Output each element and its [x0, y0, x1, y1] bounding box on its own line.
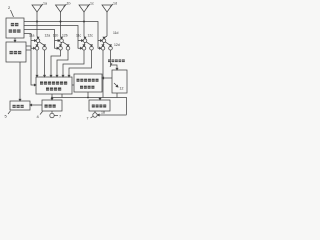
label 1c (antenna 3): [90, 2, 94, 6]
label 12d: [114, 43, 120, 47]
wire output line right: [97, 114, 126, 116]
terminal T6 below box6: [51, 111, 53, 113]
wire upper to lower-left ch3: [84, 42, 85, 45]
label 7 for terminal: [55, 115, 59, 117]
mixer I2 lower-left ring channel2: [59, 46, 63, 50]
wire box3 down to box5: [19, 62, 21, 100]
arrowhead into box5 right: [30, 104, 32, 106]
leader antenna2: [64, 4, 67, 7]
wire upper to lower-left ch2: [61, 42, 62, 45]
wire LO stubs channel4: [98, 41, 101, 49]
arrowheads ch1 into boxA: [36, 75, 45, 77]
arrowheads ch2 into boxA: [50, 75, 58, 77]
wire box6 to box5: [31, 104, 42, 106]
wire box2 to box3: [14, 38, 16, 41]
leader antenna3: [87, 4, 90, 7]
wire stem into upper ring ch4: [104, 36, 107, 38]
antenna 1b (channel 2): [56, 5, 66, 36]
svg-text:12b: 12b: [62, 34, 68, 38]
mixer U4 upper ring channel4: [102, 39, 106, 43]
box U3 control: [6, 42, 26, 62]
svg-text:12d: 12d: [114, 43, 120, 47]
mixer I4 lower-left ring channel4: [101, 46, 105, 50]
wire LO line to channel 3: [24, 26, 78, 49]
wire LO stubs channel3: [78, 41, 82, 49]
junction crossing dots on top LO line: [36, 21, 85, 23]
arrowhead into box6 top: [51, 98, 53, 100]
antenna 1c (channel 3): [79, 5, 89, 36]
wire boxA to boxB: [72, 84, 74, 86]
wire upper to lower-left ch1: [37, 42, 38, 45]
wire box3 to boxA left: [26, 46, 35, 85]
terminal TD below boxD: [94, 111, 96, 113]
wire LO stubs channel2: [55, 41, 59, 49]
mixer Q2 lower-right ring channel2: [66, 46, 70, 50]
box U2 local oscillator: [6, 18, 24, 38]
mixer Q3 lower-right ring channel3: [90, 46, 94, 50]
leader boxC label: [110, 63, 112, 67]
wire boxC feeds boxB: [103, 77, 112, 79]
label 11c: [76, 34, 82, 38]
wire LO line to channel 1: [24, 34, 31, 49]
svg-text:12a: 12a: [45, 34, 51, 38]
wire upper to lower-right ch2: [63, 42, 68, 46]
label 17 tick: [91, 116, 93, 118]
svg-text:1d: 1d: [113, 2, 117, 6]
label 4: [40, 112, 43, 115]
arrowhead box2-box3: [14, 40, 16, 42]
mixer Q1 lower-right ring channel1: [43, 46, 47, 50]
wire upper to lower-right ch3: [86, 42, 91, 46]
wire LO line to channel 4: [24, 22, 98, 49]
label 11a: [29, 34, 35, 38]
label 1d (antenna 4): [113, 2, 117, 6]
wire LO line to channel 2: [24, 30, 55, 49]
label 18: [101, 111, 105, 115]
arrowhead into boxD top: [99, 98, 101, 100]
label 11d: [113, 31, 119, 35]
box UB compensation: [74, 74, 102, 92]
svg-text:11a: 11a: [29, 34, 35, 38]
label 1a (antenna 1): [43, 2, 47, 6]
label 12c: [88, 34, 94, 38]
leader label2: [11, 10, 14, 17]
svg-text:12c: 12c: [88, 34, 94, 38]
wire stem into upper ring ch3: [84, 36, 85, 38]
leader antenna1: [40, 4, 43, 7]
wire upper to lower-right ch1: [39, 42, 44, 46]
svg-text:1b: 1b: [67, 2, 71, 6]
label 12b: [62, 34, 68, 38]
box UC calibration: [112, 70, 127, 93]
mixer U3 upper ring channel3: [83, 39, 87, 43]
wire ch2 outputs routed to boxA: [51, 50, 68, 76]
arrowhead ch4 into boxC: [116, 68, 118, 70]
svg-text:11c: 11c: [76, 34, 82, 38]
box UA amplitude/phase detector: [36, 77, 72, 94]
wire LO stubs channel1: [31, 41, 35, 49]
mixer I1 lower-left ring channel1: [35, 46, 39, 50]
label 2: [8, 5, 11, 10]
leader antenna4: [110, 4, 113, 7]
label 11b: [53, 34, 59, 38]
label calibration text above boxC: [108, 59, 125, 62]
svg-text:11b: 11b: [53, 34, 59, 38]
arrowhead into terminal TD: [97, 114, 99, 116]
wire upper to lower-right ch4: [105, 42, 110, 46]
wire box3 second stub: [26, 49, 31, 51]
box UD output processor: [89, 100, 110, 111]
wire ch3 outputs routed to boxA: [63, 50, 92, 76]
svg-text:1c: 1c: [90, 2, 94, 6]
svg-text:11d: 11d: [113, 31, 119, 35]
svg-text:18: 18: [101, 111, 105, 115]
wire ch1 outputs to boxA: [37, 50, 45, 76]
mixer U1 upper ring channel1: [36, 39, 40, 43]
mixer I3 lower-left ring channel3: [82, 46, 86, 50]
wire ch4 output Q to boxC top: [111, 50, 118, 69]
wire ch4 output I down to common net: [102, 50, 104, 98]
box U5 memory: [10, 101, 30, 110]
wire upper to lower-left ch4: [103, 42, 104, 45]
arrowheads ch3 into boxA: [62, 75, 70, 77]
label 1b (antenna 2): [67, 2, 71, 6]
mixer U2 upper ring channel2: [60, 39, 64, 43]
arrowhead into boxA left: [34, 84, 36, 86]
arrowhead into box5 top: [19, 99, 21, 101]
mixer Q4 lower-right ring channel4: [109, 46, 113, 50]
label 12 inside boxC: [114, 83, 118, 87]
svg-text:12: 12: [120, 87, 124, 91]
antenna 1d (channel 4): [102, 5, 112, 36]
box U6 processor: [42, 100, 62, 111]
wire boxA bottom to box6: [51, 94, 53, 99]
wire stem into upper ring ch1: [37, 36, 38, 38]
label 12a: [45, 34, 51, 38]
junction dots on common net: [51, 97, 89, 99]
svg-text:1a: 1a: [43, 2, 47, 6]
wire stem into upper ring ch2: [61, 36, 62, 38]
wire common net y=97.5: [52, 92, 127, 115]
antenna 1a (channel 1): [32, 5, 42, 36]
svg-text:7: 7: [87, 117, 89, 121]
label 5: [8, 111, 11, 114]
